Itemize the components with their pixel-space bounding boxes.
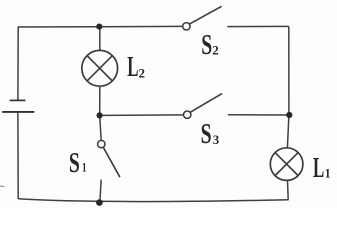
wire stub node A to lamp L2	[99, 27, 101, 50]
label S1	[69, 147, 87, 179]
wire stub node B to switch S1	[100, 115, 102, 140]
switch S1	[98, 140, 120, 177]
svg-text:2: 2	[212, 43, 219, 58]
wire right vertical (top corner through node C to lamp L1)	[287, 26, 289, 147]
switch S2	[183, 6, 222, 30]
label S3	[201, 118, 220, 150]
wire left upper (corner to battery)	[17, 26, 19, 100]
node C (middle-right junction)	[286, 112, 292, 118]
wire bottom	[18, 199, 288, 202]
wire middle left (node B to switch S3)	[100, 114, 184, 117]
switch S3	[184, 94, 223, 119]
svg-text:L: L	[313, 152, 324, 184]
label S2	[201, 30, 219, 62]
svg-text:L: L	[127, 52, 138, 84]
wire left lower (battery to bottom corner)	[17, 112, 19, 199]
svg-text:1: 1	[82, 161, 87, 175]
scan artifact dash at left edge	[0, 185, 5, 187]
svg-text:3: 3	[213, 132, 220, 147]
svg-text:1: 1	[325, 166, 331, 181]
label L1	[313, 152, 331, 184]
svg-text:2: 2	[139, 65, 146, 80]
wire stub below switch S1	[100, 180, 101, 203]
wire stub below lamp L1	[287, 181, 290, 200]
svg-text:S: S	[69, 147, 80, 179]
node A (top junction)	[96, 24, 102, 30]
lamp L2	[82, 50, 118, 86]
battery cell B	[2, 100, 34, 112]
label L2	[127, 52, 145, 84]
lamp L1	[270, 148, 303, 181]
wire top-left segment	[18, 25, 182, 28]
svg-text:S: S	[201, 118, 212, 150]
node D (bottom junction)	[96, 199, 103, 206]
svg-text:S: S	[201, 30, 212, 62]
wire stub lamp L2 to node B	[99, 87, 101, 116]
wire top-right segment	[227, 25, 288, 27]
wire middle right (switch S3 to node C)	[228, 114, 289, 116]
node B (middle-left junction)	[97, 112, 103, 118]
